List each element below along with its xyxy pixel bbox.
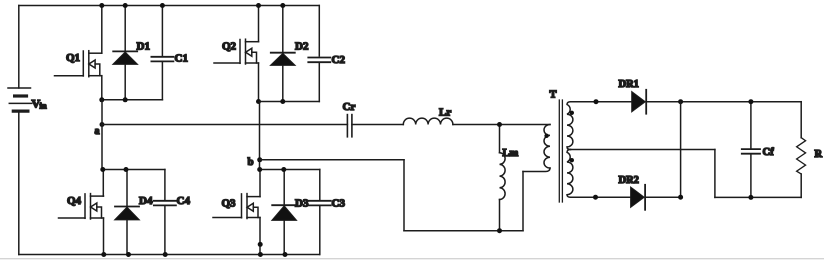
capacitor Cf	[742, 102, 774, 198]
transformer secondary top winding	[567, 102, 573, 150]
junction Q1 source	[99, 97, 104, 102]
wire Q2 leg down to node b	[259, 102, 261, 170]
svg-text:a: a	[95, 126, 100, 137]
dot secondary top rail	[594, 99, 599, 104]
capacitor Cr	[343, 101, 356, 137]
wire DR2 cathode to tie	[645, 196, 681, 198]
junction rectifier tie bottom	[678, 195, 683, 200]
junction rectifier tie top	[678, 99, 683, 104]
wire center tap to output return	[571, 149, 715, 151]
inductor Lr	[403, 106, 453, 124]
inductor Lm	[500, 125, 519, 231]
svg-text:D4: D4	[139, 195, 153, 207]
wire Q3 source to bottom bus	[259, 218, 261, 255]
junction top bus D2	[280, 3, 285, 8]
capacitor C3	[309, 170, 346, 255]
junction D4 bottom bus	[126, 252, 131, 257]
capacitor C4	[154, 170, 191, 255]
wire node a to Q4 cell	[101, 100, 103, 170]
transistor Q4	[59, 194, 104, 219]
node a	[95, 122, 105, 137]
junction top bus Q2	[256, 3, 261, 8]
svg-text:in: in	[40, 101, 47, 111]
junction Q4 drain top	[100, 167, 105, 172]
wire Q1 source to cell junction	[101, 76, 103, 100]
dot secondary bottom rail	[593, 195, 598, 200]
junction Lm top	[497, 122, 502, 127]
svg-text:C4: C4	[177, 195, 191, 207]
diode DR1	[619, 79, 647, 114]
svg-text:C1: C1	[175, 53, 188, 65]
junction Cf bottom	[748, 195, 753, 200]
node b	[248, 156, 263, 168]
svg-text:C3: C3	[332, 197, 346, 209]
junction Q4 source bus	[101, 252, 106, 257]
wire output return drop	[714, 150, 716, 198]
wire mid rail node a to Cr	[102, 124, 347, 126]
transformer secondary bottom phasing dot	[570, 158, 574, 162]
wire left rail bottom (battery - to bottom bus)	[18, 111, 20, 254]
wire Q2 cell lower junction line	[259, 101, 320, 103]
wire bottom bus	[19, 254, 320, 256]
transformer core	[559, 100, 562, 202]
junction D3 top	[281, 167, 286, 172]
wire left rail top (battery + to top bus)	[18, 6, 20, 89]
resistor R	[797, 102, 823, 198]
transformer T primary winding	[544, 90, 557, 169]
svg-text:DR2: DR2	[619, 175, 639, 186]
junction D1 bottom	[123, 97, 128, 102]
wire output bottom rail	[715, 196, 801, 198]
svg-text:Q4: Q4	[67, 195, 82, 207]
wire Q1 drain from top bus	[101, 6, 103, 54]
junction Q2 source	[256, 99, 261, 104]
transistor Q1	[55, 51, 102, 77]
junction Q3 source bus	[258, 252, 263, 257]
svg-text:R: R	[815, 149, 823, 160]
svg-text:Q1: Q1	[66, 52, 80, 64]
junction D4 top	[124, 167, 129, 172]
wire secondary top rail to DR1	[571, 101, 632, 103]
wire Q2 source to cell junction	[258, 63, 260, 102]
wire Q2 drain from top bus	[258, 6, 260, 42]
transformer secondary top phasing dot	[570, 111, 574, 115]
transformer secondary bottom winding	[567, 150, 573, 198]
svg-text:T: T	[550, 90, 557, 101]
wire top bus	[19, 5, 319, 7]
wire jog up to primary bottom	[522, 172, 524, 231]
transistor Q2	[214, 39, 259, 64]
diode D3	[272, 170, 309, 255]
junction C4 bottom bus	[163, 252, 168, 257]
wire Cr to Lr	[352, 124, 403, 126]
junction node b to Q3 drain	[257, 167, 262, 172]
svg-text:Q3: Q3	[222, 197, 237, 209]
svg-text:b: b	[248, 156, 254, 168]
scan artifact line	[0, 258, 824, 260]
svg-text:DR1: DR1	[619, 79, 639, 90]
svg-text:D2: D2	[295, 41, 309, 53]
wire primary bottom lead	[523, 168, 550, 172]
svg-text:Lr: Lr	[439, 106, 451, 118]
svg-text:D1: D1	[137, 41, 150, 53]
wire Q3 drain	[259, 170, 261, 197]
capacitor C1	[151, 6, 188, 100]
diode D2	[270, 6, 309, 102]
wire node b vertical drop	[403, 160, 405, 231]
wire Q1 cell lower junction line	[102, 99, 163, 101]
junction D3 bottom bus	[283, 252, 288, 257]
junction top bus Q1	[99, 3, 104, 8]
junction top bus D1	[123, 3, 128, 8]
wire DR1 cathode to output rail	[646, 101, 801, 103]
junction top bus C1	[160, 3, 165, 8]
wire Q3 cell upper junction line	[260, 169, 320, 171]
junction stray dot Q3 source	[258, 242, 263, 247]
diode DR2	[619, 175, 646, 210]
svg-text:D3: D3	[295, 197, 309, 209]
svg-text:Cf: Cf	[763, 147, 775, 158]
transistor Q3	[213, 194, 260, 219]
wire secondary bottom rail to DR2	[571, 196, 631, 198]
wire Q4 source to bottom bus	[103, 218, 105, 255]
wire Q4 cell upper junction line	[102, 169, 165, 171]
junction Cf top	[748, 99, 753, 104]
wire node b horizontal	[260, 159, 404, 161]
wire bottom return to Lm	[404, 230, 523, 232]
svg-text:Cr: Cr	[343, 101, 356, 113]
svg-text:C2: C2	[332, 54, 346, 66]
diode D4	[115, 170, 153, 255]
svg-text:Q2: Q2	[222, 41, 237, 53]
wire Q4 drain	[102, 170, 104, 197]
junction Lm bottom	[497, 228, 502, 233]
svg-text:Lm: Lm	[503, 148, 519, 159]
wire rectifier tie vertical	[680, 102, 682, 198]
junction D2 bottom	[280, 99, 285, 104]
transformer primary phasing dot	[544, 134, 548, 138]
capacitor C2	[308, 6, 345, 102]
battery Vin	[8, 88, 47, 111]
diode D1	[113, 6, 150, 100]
wire Lr to transformer primary	[453, 124, 550, 126]
